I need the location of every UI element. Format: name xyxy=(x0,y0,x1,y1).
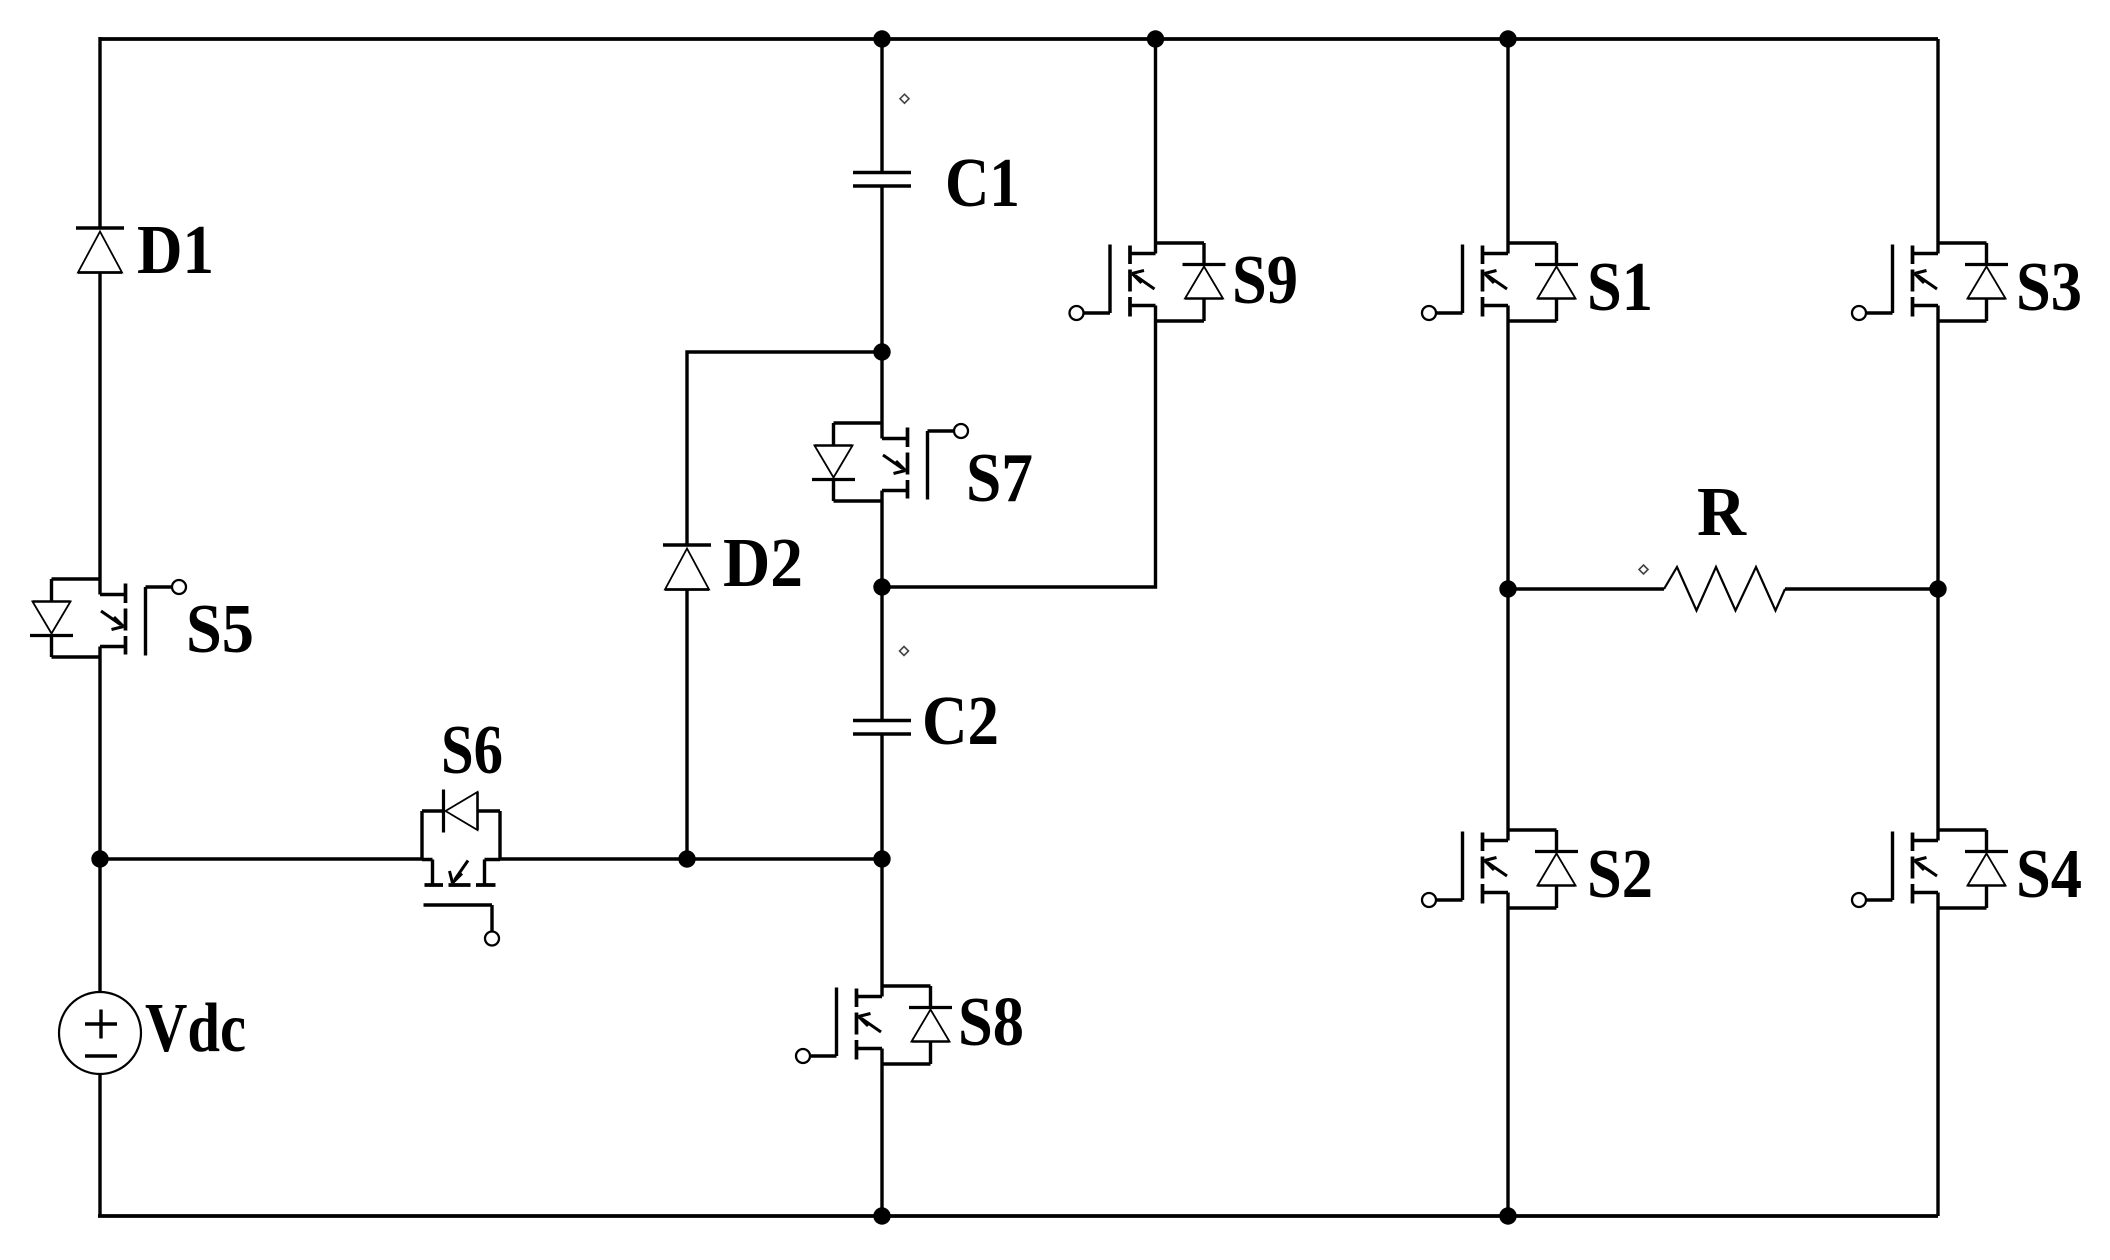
node S7-C2 xyxy=(873,578,890,595)
node D2-top xyxy=(873,343,890,360)
transistor S1 xyxy=(1422,243,1653,326)
transistor S9 xyxy=(1070,242,1299,321)
transistor S6 xyxy=(422,712,503,946)
svg-text:S9: S9 xyxy=(1232,242,1298,319)
svg-text:S1: S1 xyxy=(1587,249,1653,326)
transistor S8 xyxy=(796,984,1024,1064)
node bottom-S1 xyxy=(1499,1207,1516,1224)
node bridge-right xyxy=(1929,580,1946,597)
wire right rail lower xyxy=(1936,908,1939,1216)
svg-text:C1: C1 xyxy=(945,145,1020,222)
wire left rail mid1 xyxy=(98,273,101,580)
wire left rail upper xyxy=(98,37,101,228)
svg-text:S6: S6 xyxy=(441,712,503,789)
svg-text:S4: S4 xyxy=(2016,836,2082,913)
wire D2 branch top xyxy=(687,352,882,545)
wire middle column seg4 xyxy=(880,734,883,986)
wire S1 column bottom xyxy=(1506,908,1509,1216)
wire S9 column bottom to node xyxy=(882,321,1156,587)
wire S6 right xyxy=(500,857,882,860)
wire top rail xyxy=(100,37,1938,41)
svg-text:D1: D1 xyxy=(137,212,214,289)
transistor S2 xyxy=(1422,830,1653,913)
svg-text:R: R xyxy=(1697,474,1747,551)
node bottom-middle xyxy=(873,1207,890,1224)
node top-middle xyxy=(873,30,890,47)
node left-S6 xyxy=(91,850,108,867)
wire left rail lower xyxy=(98,1074,101,1216)
node D2-bottom xyxy=(678,850,695,867)
svg-text:D2: D2 xyxy=(723,525,803,602)
wire R right xyxy=(1785,587,1938,590)
wire middle column bottom xyxy=(880,1064,883,1216)
wire S9 column top xyxy=(1154,39,1157,243)
node top-S1 xyxy=(1499,30,1516,47)
source Vdc xyxy=(59,990,246,1074)
svg-text:S5: S5 xyxy=(186,591,254,668)
transistor S5 xyxy=(30,579,254,668)
resistor R xyxy=(1639,474,1785,611)
node C2-bottom xyxy=(873,850,890,867)
svg-text:Vdc: Vdc xyxy=(145,990,246,1067)
wire middle column seg2 xyxy=(880,186,883,423)
svg-text:C2: C2 xyxy=(922,683,999,760)
svg-text:S3: S3 xyxy=(2016,249,2082,326)
wire S1 column top xyxy=(1506,39,1509,243)
wire D2 branch bottom xyxy=(685,590,688,860)
capacitor C2 xyxy=(853,647,999,761)
wire R left xyxy=(1508,587,1664,590)
transistor S4 xyxy=(1852,830,2082,913)
transistor S3 xyxy=(1852,243,2082,326)
wire S6 left xyxy=(100,857,422,860)
wire right rail upper xyxy=(1936,39,1939,243)
wire left rail mid2 xyxy=(98,657,101,992)
node bridge-left xyxy=(1499,580,1516,597)
wire middle column seg3 xyxy=(880,501,883,721)
svg-text:S2: S2 xyxy=(1587,836,1653,913)
diode D1 xyxy=(76,212,214,289)
svg-text:S8: S8 xyxy=(958,984,1024,1061)
svg-text:S7: S7 xyxy=(966,440,1033,517)
wire middle column top xyxy=(880,39,883,173)
node top-S9 xyxy=(1147,30,1164,47)
capacitor C1 xyxy=(853,94,1020,222)
wire bottom rail xyxy=(98,1214,1938,1218)
wire S1 column mid xyxy=(1506,321,1509,830)
diode D2 xyxy=(663,525,803,602)
wire right rail mid xyxy=(1936,321,1939,830)
transistor S7 xyxy=(812,423,1033,517)
